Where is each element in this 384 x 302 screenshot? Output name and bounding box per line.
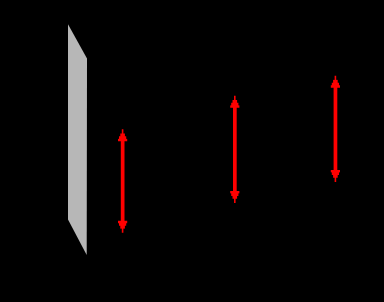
arrow 1 (leftmost red double arrow) bbox=[118, 129, 127, 233]
arrow 3 (rightmost red double arrow) bbox=[331, 76, 340, 182]
arrow 2 (middle red double arrow) bbox=[230, 96, 239, 203]
wall (gray parallelogram) bbox=[68, 24, 87, 255]
